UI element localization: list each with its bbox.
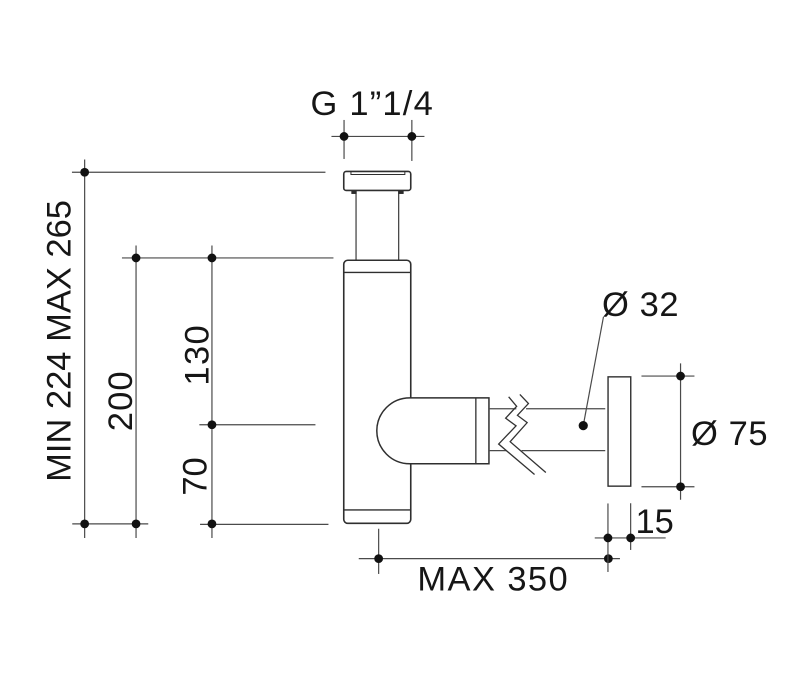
svg-text:70: 70 <box>176 457 214 495</box>
pipe break zigzag right <box>510 394 546 472</box>
dots 200 <box>132 254 141 263</box>
extension line flange right <box>630 503 632 550</box>
trap inlet tube <box>356 190 399 260</box>
dimension line 15 <box>595 537 666 539</box>
extension line flange left <box>607 503 609 572</box>
dimension line 200 <box>135 245 137 538</box>
svg-text:Ø 32: Ø 32 <box>602 286 679 324</box>
svg-text:G 1”1/4: G 1”1/4 <box>311 85 434 123</box>
wall pipe upper line <box>489 408 516 410</box>
extension line body top level <box>122 257 334 259</box>
extension tick left MAX350 <box>378 529 380 574</box>
extension line outlet axis <box>199 424 315 426</box>
dots MAX 350 <box>374 554 383 563</box>
dots MIN/MAX <box>80 168 89 177</box>
dimension dots G 1"1/4 <box>340 132 349 141</box>
dimension line MAX 350 <box>359 558 620 560</box>
dots 15 <box>604 534 613 543</box>
extension line bottom left <box>72 523 148 525</box>
dimension line MIN 224 MAX 265 <box>84 159 86 538</box>
outlet fitting <box>377 398 489 464</box>
svg-text:MIN 224 MAX 265: MIN 224 MAX 265 <box>41 200 79 482</box>
wall flange <box>608 377 631 486</box>
dots 130/70 <box>208 254 217 263</box>
trap body <box>344 260 411 523</box>
wall pipe lower line <box>489 450 506 452</box>
svg-text:15: 15 <box>635 503 673 541</box>
dots diameter 75 <box>676 372 685 381</box>
thread relief tabs <box>351 190 356 194</box>
leader line diameter 32 <box>583 317 603 426</box>
svg-text:MAX 350: MAX 350 <box>417 560 569 598</box>
outlet collar seam <box>475 398 477 464</box>
svg-text:200: 200 <box>102 370 140 431</box>
body top seam <box>344 271 411 273</box>
leader dot diameter 32 <box>579 421 588 430</box>
extension line bottom (130/70) <box>200 523 328 525</box>
dimension line 130/70 <box>211 245 213 538</box>
body bottom seam <box>344 509 411 511</box>
extension line top (nut top level) <box>72 171 326 173</box>
top nut <box>344 171 411 190</box>
nut top groove <box>351 172 405 175</box>
dimension line G 1"1/4 <box>331 120 424 161</box>
svg-text:130: 130 <box>178 324 216 386</box>
svg-text:Ø 75: Ø 75 <box>691 415 768 453</box>
dimension line diameter 75 <box>641 363 694 499</box>
pipe break zigzag left <box>499 397 535 475</box>
